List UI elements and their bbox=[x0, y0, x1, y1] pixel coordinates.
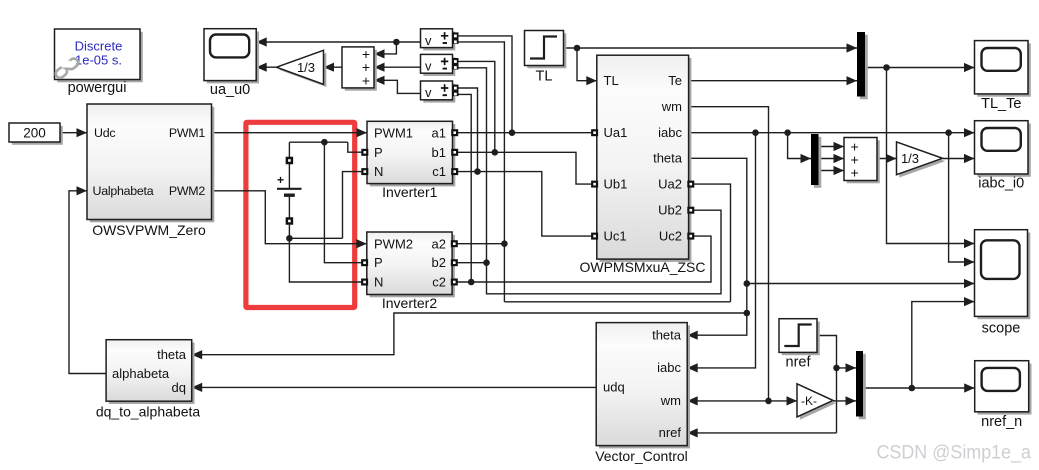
wire a1 to Ua1 bbox=[453, 132, 597, 134]
powergui block bbox=[57, 32, 143, 83]
wire v2+ tap bbox=[458, 61, 495, 152]
red annotation rectangle bbox=[246, 122, 355, 307]
node a2 junction bbox=[501, 240, 508, 247]
node c2 junction bbox=[468, 279, 475, 286]
svg-text:200: 200 bbox=[23, 126, 46, 141]
svg-text:wm: wm bbox=[660, 393, 681, 408]
node TL branch bbox=[574, 45, 581, 52]
node c1/v3+ junction bbox=[474, 168, 481, 175]
node wm junction bbox=[765, 398, 772, 405]
svg-text:1/3: 1/3 bbox=[297, 60, 315, 75]
DC voltage source (battery) bbox=[277, 188, 302, 190]
svg-text:PWM1: PWM1 bbox=[374, 125, 413, 140]
scope block ua_u0 bbox=[207, 32, 259, 84]
svg-text:nref: nref bbox=[659, 425, 682, 440]
wire TL to mux bbox=[564, 47, 858, 49]
svg-text:iabc: iabc bbox=[658, 125, 682, 140]
svg-text:PWM1: PWM1 bbox=[169, 126, 206, 140]
svg-text:iabc: iabc bbox=[657, 360, 681, 375]
subsystem Vector_Control bbox=[599, 325, 690, 448]
node battery- junction bbox=[286, 235, 293, 242]
wire b2 stub bbox=[452, 262, 486, 264]
node nref_n branch bbox=[909, 385, 916, 392]
svg-text:CSDN @Simp1e_a: CSDN @Simp1e_a bbox=[877, 442, 1032, 464]
svg-text:theta: theta bbox=[652, 328, 682, 343]
svg-text:v: v bbox=[425, 33, 432, 48]
wire gain to iabc_i0 bbox=[943, 158, 975, 160]
wire c1 to Uc1 bbox=[453, 172, 597, 237]
svg-text:TL_Te: TL_Te bbox=[981, 96, 1021, 112]
sum block (left) bbox=[345, 50, 377, 91]
sum block (right) bbox=[847, 140, 880, 183]
svg-text:Ua1: Ua1 bbox=[604, 125, 628, 140]
wire 200 to Udc bbox=[60, 132, 87, 134]
svg-text:v: v bbox=[425, 85, 432, 100]
wire PWM1 to Inverter1 bbox=[212, 132, 368, 134]
svg-text:Te: Te bbox=[668, 73, 682, 88]
svg-text:dq_to_alphabeta: dq_to_alphabeta bbox=[96, 404, 201, 420]
svg-text:Ua2: Ua2 bbox=[658, 176, 682, 191]
wire v3- tap bbox=[458, 94, 472, 282]
node theta branch scope bbox=[744, 280, 751, 287]
wire gain 1/3 to ua_u0 bbox=[256, 66, 276, 68]
voltage measurement v3 (uc) bbox=[423, 84, 455, 103]
wire Te to mux bbox=[689, 80, 857, 82]
svg-text:b2: b2 bbox=[432, 255, 446, 270]
wire v1-/a2 to Ua2 bbox=[458, 42, 731, 302]
wire -K- to mux bbox=[833, 400, 856, 402]
svg-text:nref_n: nref_n bbox=[981, 414, 1022, 430]
svg-text:+: + bbox=[362, 72, 370, 88]
subsystem Inverter1 bbox=[370, 124, 456, 186]
step block TL bbox=[527, 33, 566, 68]
svg-text:udq: udq bbox=[603, 380, 625, 395]
wire wm down to Vector_Control bbox=[689, 107, 769, 401]
svg-text:powergui: powergui bbox=[68, 80, 127, 96]
svg-text:scope: scope bbox=[982, 321, 1021, 337]
gain 1/3 (right) bbox=[899, 145, 945, 178]
wire alphabeta to Ualphabeta bbox=[69, 191, 106, 374]
wire udq to dq_to_alphabeta bbox=[192, 386, 597, 388]
wire v3+ tap bbox=[458, 88, 478, 172]
node b1/v2+ junction bbox=[492, 149, 499, 156]
wire battery- to N1 bbox=[289, 172, 367, 239]
node theta branch dq bbox=[744, 310, 751, 317]
svg-text:1e-05 s.: 1e-05 s. bbox=[75, 53, 122, 68]
svg-text:a1: a1 bbox=[432, 125, 446, 140]
svg-text:P: P bbox=[374, 255, 383, 270]
svg-text:Inverter1: Inverter1 bbox=[382, 184, 437, 200]
wire PWM2 to Inverter2 bbox=[212, 191, 367, 244]
svg-text:Uc1: Uc1 bbox=[604, 228, 627, 243]
wire v1+ tap bbox=[458, 36, 513, 133]
subsystem Inverter2 bbox=[370, 235, 455, 297]
svg-text:Vector_Control: Vector_Control bbox=[595, 448, 688, 464]
svg-text:Discrete: Discrete bbox=[75, 39, 123, 54]
svg-text:PWM2: PWM2 bbox=[169, 184, 206, 198]
svg-text:dq: dq bbox=[172, 380, 186, 395]
voltage measurement v1 (ua) bbox=[423, 32, 455, 51]
subsystem OWSVPWM_Zero bbox=[90, 107, 215, 223]
subsystem OWPMSMxuA_ZSC bbox=[600, 58, 692, 262]
wire demux out 2 bbox=[819, 158, 845, 160]
svg-text:theta: theta bbox=[157, 347, 187, 362]
wire demux out 3 bbox=[819, 170, 845, 172]
wire v3 out to sum bbox=[374, 80, 421, 93]
wire mux to nref_n scope bbox=[863, 387, 975, 389]
svg-text:OWSVPWM_Zero: OWSVPWM_Zero bbox=[92, 222, 206, 238]
svg-text:N: N bbox=[374, 164, 383, 179]
wire demux out 1 bbox=[819, 146, 845, 148]
svg-text:+: + bbox=[277, 173, 284, 187]
svg-text:Uc2: Uc2 bbox=[659, 228, 682, 243]
svg-text:Ualphabeta: Ualphabeta bbox=[93, 184, 154, 198]
svg-text:b1: b1 bbox=[432, 145, 446, 160]
wire sum to gain 1/3 bbox=[324, 66, 343, 68]
wire v2 out to sum bbox=[374, 66, 421, 68]
svg-text:Ub1: Ub1 bbox=[604, 176, 628, 191]
mux (TL,Te) bbox=[860, 35, 868, 100]
wire b1 to Ub1 bbox=[453, 152, 597, 184]
svg-text:Ub2: Ub2 bbox=[658, 203, 682, 218]
svg-text:v: v bbox=[425, 58, 432, 73]
node b2 junction bbox=[483, 259, 490, 266]
svg-text:Inverter2: Inverter2 bbox=[382, 295, 437, 311]
node a1/v1+ junction bbox=[509, 129, 516, 136]
svg-text:nref: nref bbox=[786, 355, 812, 371]
svg-text:Udc: Udc bbox=[94, 126, 115, 140]
svg-text:TL: TL bbox=[604, 73, 619, 88]
wire battery+ to P1 bbox=[289, 142, 367, 157]
wire iabc to iabc_i0 scope bbox=[689, 132, 975, 134]
svg-text:alphabeta: alphabeta bbox=[112, 366, 170, 381]
scope block iabc_i0 bbox=[977, 124, 1031, 177]
scope block scope bbox=[977, 233, 1030, 320]
voltage measurement v2 (ub) bbox=[423, 57, 455, 76]
demux (iabc) bbox=[814, 137, 822, 188]
node iabc branch 1 bbox=[752, 129, 759, 136]
svg-text:P: P bbox=[374, 145, 383, 160]
wire mux to TL_Te scope bbox=[865, 67, 975, 69]
node iabc branch 3 bbox=[945, 129, 952, 136]
svg-text:iabc_i0: iabc_i0 bbox=[978, 176, 1024, 192]
scope block nref_n bbox=[978, 364, 1032, 415]
svg-text:c1: c1 bbox=[432, 164, 446, 179]
wire sum to gain 1/3 right bbox=[877, 158, 897, 160]
svg-text:OWPMSMxuA_ZSC: OWPMSMxuA_ZSC bbox=[579, 259, 705, 275]
subsystem dq_to_alphabeta bbox=[109, 343, 195, 405]
step block nref bbox=[782, 322, 820, 356]
svg-text:PWM2: PWM2 bbox=[374, 236, 413, 251]
node nref junction bbox=[833, 365, 840, 372]
svg-text:a2: a2 bbox=[432, 236, 446, 251]
wire v1 out to ua_u0 bbox=[256, 41, 420, 43]
svg-text:+: + bbox=[851, 165, 859, 181]
node iabc branch 2 bbox=[784, 129, 791, 136]
wire v2-/b2 to Ub2 bbox=[458, 68, 722, 294]
mux (nref,wm) bbox=[859, 354, 866, 420]
svg-text:c2: c2 bbox=[432, 275, 446, 290]
gain -K- bbox=[800, 387, 836, 420]
constant block 200 bbox=[12, 126, 63, 145]
node TL_Te branch bbox=[883, 64, 890, 71]
node battery+ junction bbox=[321, 139, 328, 146]
svg-text:1/3: 1/3 bbox=[901, 151, 919, 166]
wire c2 to Uc2 bbox=[452, 236, 711, 282]
wire nref source down bbox=[817, 336, 837, 433]
svg-text:-K-: -K- bbox=[801, 394, 817, 408]
wire a2 stub bbox=[452, 243, 504, 245]
wire theta to Vector_Control bbox=[687, 158, 747, 335]
svg-text:TL: TL bbox=[536, 69, 553, 85]
svg-text:wm: wm bbox=[661, 99, 682, 114]
svg-text:ua_u0: ua_u0 bbox=[210, 82, 250, 98]
svg-text:N: N bbox=[374, 275, 383, 290]
svg-text:theta: theta bbox=[653, 151, 683, 166]
gain 1/3 (left, pointing left) bbox=[279, 53, 326, 87]
node v1 branch bbox=[393, 39, 400, 46]
scope block TL_Te bbox=[977, 43, 1031, 96]
